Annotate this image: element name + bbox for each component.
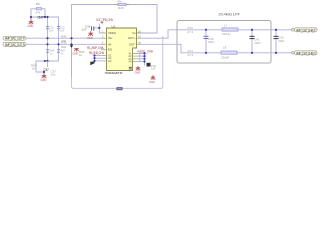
- resistor R45 label: [61, 41, 67, 50]
- svg-text:220n: 220n: [254, 41, 261, 45]
- port AMP_OUT_CHA_N: [292, 51, 318, 55]
- svg-text:IN-: IN-: [108, 42, 112, 46]
- inductor L8: [221, 45, 237, 59]
- capacitor C35 lower: [46, 49, 55, 56]
- ground GND6: [151, 75, 156, 80]
- svg-text:1uF: 1uF: [49, 28, 54, 32]
- svg-text:GND: GND: [135, 70, 141, 74]
- U2 pin stubs right: [133, 33, 142, 62]
- svg-text:220n: 220n: [208, 40, 215, 44]
- junction dots net17: [30, 16, 49, 18]
- svg-text:GND: GND: [41, 78, 47, 82]
- svg-text:GND: GND: [87, 36, 93, 40]
- resistor R44 label: [61, 34, 67, 43]
- svg-text:AMP_DAC_OUT_P: AMP_DAC_OUT_P: [5, 37, 25, 41]
- svg-text:27.4: 27.4: [188, 30, 194, 34]
- svg-text:GND: GND: [73, 51, 79, 55]
- gnd square black: [147, 63, 151, 67]
- svg-text:1uF: 1uF: [60, 28, 65, 32]
- sheet-symbol blue box: [72, 36, 163, 88]
- svg-text:PA_GND_CHA: PA_GND_CHA: [89, 51, 105, 55]
- svg-text:EN: EN: [108, 48, 112, 52]
- wire IN N: [26, 43, 101, 45]
- U2 pin names left: [108, 31, 116, 63]
- wire bypass net: [31, 17, 59, 61]
- wire bottom gnd net: [36, 61, 59, 72]
- svg-text:20.4kHz LPF: 20.4kHz LPF: [219, 12, 241, 16]
- tee marker mute: [70, 45, 73, 48]
- wire out N to LPF: [141, 44, 187, 53]
- wire out P to LPF: [141, 30, 177, 38]
- shunt column C42: [274, 30, 286, 53]
- wire c37 stub: [46, 61, 48, 67]
- resistor R71 label: [188, 49, 194, 57]
- svg-text:10u: 10u: [51, 72, 56, 76]
- svg-text:R44: R44: [61, 34, 67, 38]
- svg-text:GND: GND: [28, 24, 34, 28]
- junction dot vcc: [98, 27, 100, 29]
- capacitor C36 lower: [57, 49, 66, 56]
- shunt column C40: [204, 30, 215, 53]
- U2 pin numbers right: [138, 30, 141, 62]
- svg-text:220nF: 220nF: [221, 56, 229, 60]
- sheet tag: [117, 87, 123, 90]
- capacitor C34: [82, 24, 94, 31]
- U2 pin stubs left: [101, 33, 107, 50]
- wire gnd group right: [138, 53, 145, 65]
- svg-text:IN+: IN+: [108, 36, 113, 40]
- wire gnd pins group: [95, 56, 107, 62]
- svg-text:L7: L7: [224, 23, 228, 27]
- inductor L7: [222, 23, 238, 35]
- svg-text:220n: 220n: [278, 39, 285, 43]
- svg-text:AMP_OUT_CHA_N: AMP_OUT_CHA_N: [296, 51, 316, 55]
- svg-text:4_DSL_CHA: 4_DSL_CHA: [137, 49, 154, 53]
- resistor R70 label: [188, 26, 194, 34]
- capacitor C37: [43, 68, 56, 77]
- junction dots net61: [44, 60, 49, 62]
- junction dots c40: [205, 29, 207, 54]
- svg-text:R5: R5: [36, 2, 40, 6]
- wire riser mute: [71, 17, 73, 77]
- resistor R5 bypass: [31, 2, 45, 17]
- U2 pin numbers left: [102, 30, 104, 50]
- ground GND1: [29, 18, 34, 24]
- junction dots c41: [251, 29, 253, 54]
- ground GND3: [74, 49, 79, 52]
- wire IN P: [26, 37, 101, 39]
- port AMP_DAC_OUT_P: [3, 36, 26, 40]
- wire LPF row1: [177, 29, 293, 31]
- junction dots pins group: [93, 54, 95, 62]
- capacitor C32: [57, 25, 65, 32]
- port AMP_OUT_CHA_P: [292, 28, 318, 32]
- svg-text:U2: U2: [112, 25, 116, 29]
- port AMP_DAC_OUT_N: [3, 42, 26, 46]
- svg-text:1uF: 1uF: [151, 67, 156, 71]
- junction dots c42: [275, 29, 277, 54]
- svg-text:1uF: 1uF: [82, 27, 87, 31]
- svg-text:AMP_DAC_OUT_N: AMP_DAC_OUT_N: [5, 43, 26, 47]
- svg-text:R45: R45: [61, 41, 67, 45]
- svg-text:OUT+: OUT+: [128, 36, 136, 40]
- wire cap stub: [94, 27, 100, 29]
- gnd flag black: [90, 62, 94, 66]
- svg-text:GND: GND: [149, 80, 155, 84]
- capacitor C31: [46, 25, 54, 32]
- junction dots wires: [46, 37, 72, 45]
- svg-text:R26: R26: [118, 6, 124, 10]
- svg-text:220nH: 220nH: [222, 32, 231, 36]
- ground GND4: [88, 31, 93, 36]
- resistor R26 feedback: [114, 0, 130, 10]
- svg-text:47k: 47k: [117, 0, 122, 4]
- svg-text:CMP: CMP: [37, 15, 44, 20]
- svg-text:27.4: 27.4: [188, 53, 194, 57]
- svg-text:TPA6130A2RTJR: TPA6130A2RTJR: [105, 71, 123, 75]
- wire feedback top: [72, 5, 158, 34]
- svg-text:20R: 20R: [61, 45, 66, 49]
- op-amp U2 TPA6130: [105, 25, 137, 75]
- ground GND2: [42, 73, 47, 79]
- svg-text:VCC_TPA_CHA: VCC_TPA_CHA: [96, 18, 114, 22]
- power VCC_TPA_CHA: [96, 18, 114, 24]
- LPF gray box: [177, 21, 271, 64]
- wire riser c31: [47, 17, 49, 61]
- shunt column C41: [250, 30, 262, 53]
- wire vcc: [99, 24, 101, 33]
- thermal pad glyph: [129, 67, 132, 70]
- svg-text:OUT-: OUT-: [129, 42, 136, 46]
- svg-text:AMP_OUT_CHA_P: AMP_OUT_CHA_P: [296, 28, 316, 32]
- wire LPF row2: [187, 52, 293, 54]
- svg-text:C37: C37: [43, 68, 49, 72]
- svg-text:L8: L8: [223, 45, 227, 49]
- junction dots right group: [143, 52, 145, 62]
- U2 pin names right: [128, 31, 136, 64]
- ground GND5: [136, 66, 141, 71]
- svg-text:VDDH: VDDH: [108, 31, 116, 35]
